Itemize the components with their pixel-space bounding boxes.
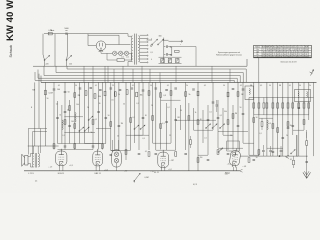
resistor R53 mid xyxy=(130,118,132,123)
label busrow 2 xyxy=(75,85,77,87)
wire right v down xyxy=(306,130,308,172)
wire table drop xyxy=(258,58,260,83)
capacitor C50 osc xyxy=(64,111,67,112)
resistor R51 osc xyxy=(64,120,66,125)
wire vertical v37 xyxy=(202,110,204,143)
capacitor C13 xyxy=(119,89,122,90)
resistor R21 right row xyxy=(258,98,260,115)
capacitor C69 low xyxy=(272,151,275,152)
wire link h22 xyxy=(218,131,248,133)
resistor R40 right xyxy=(306,132,308,157)
label smudge 6 xyxy=(111,100,113,102)
resistor R33 mid xyxy=(152,116,154,121)
wire otr v xyxy=(33,146,35,154)
switch S5 band c xyxy=(140,125,145,130)
label bottom 2 xyxy=(193,184,198,186)
wire link h3 xyxy=(58,143,102,145)
bus bottom main xyxy=(24,169,243,172)
wire heater winding xyxy=(131,51,133,53)
resistor R11 xyxy=(148,91,150,96)
label value 11 xyxy=(200,119,202,121)
tube V5 EM11 xyxy=(229,148,241,168)
wire vertical v49 xyxy=(266,82,268,156)
label pin 2 xyxy=(69,165,73,167)
wire vertical v29 xyxy=(166,103,168,150)
resistor R62 low xyxy=(101,144,103,149)
resistor R32 mid xyxy=(92,120,94,125)
label smudge 3 xyxy=(76,104,79,106)
label busrow 10 xyxy=(223,85,225,87)
wire switch to rail a xyxy=(44,60,46,66)
capacitor C55 mid xyxy=(174,119,177,120)
wire vertical v42 xyxy=(227,82,229,150)
title maker Schaub xyxy=(9,45,13,57)
capacitor C6 electrolytic xyxy=(176,58,179,62)
wire vertical v46 xyxy=(248,98,250,156)
wire mains drop left xyxy=(42,34,44,55)
bus main top xyxy=(41,81,317,83)
label busrow 14 xyxy=(269,85,271,87)
transformer Tr1 core xyxy=(135,34,137,65)
label bottom 4 xyxy=(290,159,292,161)
capacitor C75 det row xyxy=(280,146,283,156)
wire bus corner xyxy=(40,76,42,83)
wire tube V2 leads xyxy=(96,167,99,171)
label smudge 19 xyxy=(142,138,144,140)
label pin 6 xyxy=(243,166,247,168)
arrow B+ b xyxy=(157,39,163,45)
resistor R54 mid xyxy=(110,122,112,127)
capacitor C4 electrolytic xyxy=(161,58,164,62)
resistor R39 af xyxy=(190,136,192,148)
wire link h1 xyxy=(64,116,83,118)
tube V2 EBF11 xyxy=(93,149,103,168)
switch S1 mains xyxy=(43,55,50,61)
wire link h16 xyxy=(85,143,106,145)
wire vertical v30 xyxy=(170,82,172,143)
wire vertical v16 xyxy=(105,82,107,143)
label wavelength xyxy=(31,107,33,109)
label misc 4 xyxy=(159,36,162,38)
capacitor C63 low xyxy=(138,153,141,154)
label smudge 4 xyxy=(87,107,89,109)
wire link h12 xyxy=(198,154,208,156)
label smudge 16 xyxy=(62,135,64,137)
capacitor C64 low xyxy=(155,153,158,154)
title model KW 40 W xyxy=(5,0,16,41)
tube V3 EF11 diodes xyxy=(112,140,122,171)
wire vertical v22 xyxy=(133,82,135,143)
resistor R38 low xyxy=(303,120,305,125)
label smudge 20 xyxy=(169,135,171,137)
wire secondary taps xyxy=(140,35,148,63)
capacitor C61 low xyxy=(92,146,95,147)
capacitor C58 mid xyxy=(287,127,290,128)
wire tube V5 leads xyxy=(233,167,236,171)
capacitor C66 low xyxy=(207,159,210,160)
label value 19 xyxy=(220,149,222,151)
resistor R50 osc xyxy=(69,106,71,111)
resistor R71 right2 xyxy=(287,122,289,127)
tube V1 ECH11 xyxy=(56,149,67,167)
wire link h2 xyxy=(64,131,95,133)
capacitor C16 xyxy=(155,88,158,89)
wire vertical v1 xyxy=(34,82,36,146)
resistor R58 mid xyxy=(272,124,274,129)
label tube V1 xyxy=(58,173,64,175)
wire vertical v27 xyxy=(155,82,157,150)
potentiometer P1 xyxy=(134,173,141,182)
lamp La2 xyxy=(118,51,122,55)
resistor R4 xyxy=(74,93,81,98)
label busrow 1 xyxy=(58,85,60,87)
label smudge 15 xyxy=(240,107,242,109)
wire vertical v39 xyxy=(212,82,214,130)
wire tube V1 leads xyxy=(60,167,63,171)
capacitor C18 xyxy=(174,88,177,89)
label tap volts xyxy=(150,38,152,60)
speaker LS xyxy=(22,154,28,166)
wire vertical v33 xyxy=(185,82,187,150)
label volume xyxy=(145,177,149,179)
wire rail stub s9 xyxy=(211,66,213,82)
capacitor C31 low xyxy=(298,107,301,108)
label pin 1 xyxy=(49,167,53,169)
wire link h20 xyxy=(293,129,304,131)
capacitor C51 osc xyxy=(68,125,71,126)
label smudge 5 xyxy=(99,103,101,105)
wire otr top xyxy=(28,146,59,154)
wire heater loop xyxy=(107,53,132,60)
label speaker xyxy=(28,173,34,175)
wire vertical v8 xyxy=(69,100,71,144)
resistor R37 low xyxy=(253,118,255,123)
wire vertical v19 xyxy=(118,82,120,150)
resistor R34 mid xyxy=(188,116,190,121)
wire link h9 xyxy=(156,149,176,151)
label value 8 xyxy=(145,115,147,117)
output transformer Tr2 core xyxy=(35,153,36,168)
wire vertical v48 xyxy=(258,82,260,156)
capacitor C12 xyxy=(110,88,113,89)
capacitor C32 low xyxy=(305,161,308,162)
capacitor C65 low xyxy=(184,153,187,154)
label busrow 17 xyxy=(299,85,301,87)
lamp La3 xyxy=(124,51,128,55)
wire vertical v2 xyxy=(38,74,40,129)
label rectifier xyxy=(99,50,104,53)
capacitor C68 low xyxy=(253,159,256,160)
label smudge 23 xyxy=(259,133,261,135)
IF transformer box T1 xyxy=(295,90,311,102)
capacitor C70 right2 xyxy=(292,125,295,126)
resistor R70 right2 xyxy=(261,118,263,130)
label terminal TA xyxy=(32,89,35,92)
wire speaker bottom xyxy=(28,164,34,168)
wire electrolytic bus xyxy=(159,57,182,63)
wire rail stub s7 xyxy=(159,73,161,83)
wire vertical v38 xyxy=(207,105,209,155)
capacitor C9 xyxy=(79,88,82,89)
resistor R67 low xyxy=(217,150,219,155)
transformer Tr1 primary xyxy=(131,36,132,62)
resistor R36 low xyxy=(277,128,279,133)
capacitor C67 low xyxy=(227,153,230,154)
wire link h18 xyxy=(223,134,233,136)
resistor R18 xyxy=(227,92,229,97)
label value 5 xyxy=(108,115,110,117)
output transformer Tr2 primary xyxy=(32,154,33,168)
capacitor C60 low xyxy=(64,146,67,147)
label value 6 xyxy=(121,123,124,125)
label busrow 9 xyxy=(204,85,206,87)
label smudge 14 xyxy=(224,111,227,113)
resistor R23 right row xyxy=(266,98,268,115)
wire vertical v11 xyxy=(84,82,86,143)
label value 3 xyxy=(59,115,61,117)
resistor R25 right row xyxy=(277,98,279,115)
label smudge 1 xyxy=(47,98,49,100)
switch S2 mains xyxy=(66,55,72,61)
wire drop c xyxy=(54,55,56,67)
label pin 3 xyxy=(104,170,108,172)
wire rail stub s4 xyxy=(122,66,124,82)
wire det out xyxy=(240,155,308,156)
label busrow 12 xyxy=(250,85,253,87)
label value 9 xyxy=(162,123,164,125)
label pin 5 xyxy=(168,169,172,171)
resistor R42 ballast xyxy=(117,59,124,62)
rectifier tube AZ11 xyxy=(96,41,106,51)
arrow det out xyxy=(286,155,289,158)
wire vertical v54 xyxy=(292,82,294,135)
wire vertical v43 xyxy=(232,105,234,150)
wire vertical v45 xyxy=(242,82,244,143)
wire link h5 xyxy=(111,150,131,152)
label pin 4 xyxy=(151,171,155,173)
capacitor C10 xyxy=(90,87,93,88)
label smudge 21 xyxy=(204,138,206,140)
resistor R66 low xyxy=(197,158,199,163)
wire vertical v9 xyxy=(74,82,76,149)
resistor R12 xyxy=(160,93,166,98)
resistor R64 low xyxy=(148,152,150,157)
resistor R26 right row xyxy=(282,98,284,115)
label value 18 xyxy=(200,157,203,159)
wire vertical v26 xyxy=(152,82,154,143)
label busrow 4 xyxy=(112,85,114,87)
switch S4 band b xyxy=(134,125,139,130)
label misc 6 xyxy=(180,44,181,46)
coil L2 xyxy=(62,120,63,130)
label smudge 24 xyxy=(286,135,288,137)
resistor R43 det xyxy=(293,156,295,168)
wire vertical v15 xyxy=(101,82,103,149)
resistor R1 filter xyxy=(172,47,179,56)
resistor R65 low xyxy=(175,152,177,157)
coil L3 xyxy=(267,120,268,130)
wire lamps xyxy=(110,52,132,54)
label value 12 xyxy=(220,115,222,117)
arrow B+ out xyxy=(180,40,183,42)
label table caption xyxy=(280,61,297,64)
resistor R30 right row xyxy=(303,98,305,115)
wire rail drop a xyxy=(83,66,85,82)
wire vertical v5 xyxy=(57,101,59,144)
wire det drop xyxy=(296,135,298,156)
resistor R6 xyxy=(94,94,101,99)
wire rail stub s8 xyxy=(175,66,177,82)
switch S8 band e xyxy=(88,116,93,121)
label misc 8 xyxy=(126,57,129,59)
capacitor C73 det row xyxy=(262,145,265,156)
wire speaker feed v3 xyxy=(40,129,42,154)
capacitor C2 filter xyxy=(166,45,173,48)
wire vertical v4 xyxy=(53,82,55,149)
resistor R20 right row xyxy=(253,98,255,115)
wire rail drop c xyxy=(149,69,151,82)
wire filter node xyxy=(163,38,169,63)
rail 1 xyxy=(33,59,247,66)
switch S12 det xyxy=(290,150,295,155)
label smudge 12 xyxy=(195,112,197,114)
wire rectifier heater xyxy=(101,49,110,53)
wire link h7 xyxy=(111,150,119,152)
wire rectifier anode xyxy=(106,44,131,46)
resistor R27 right row xyxy=(287,98,289,115)
label smudge 7 xyxy=(123,104,125,106)
capacitor C30 low xyxy=(282,137,285,138)
resistor R69 low xyxy=(258,150,260,155)
wire speaker feed h xyxy=(33,131,47,133)
label caption two lines xyxy=(216,51,242,56)
resistor R22 right row xyxy=(263,98,265,115)
resistor R55 mid xyxy=(160,124,162,129)
wire right ground drop xyxy=(306,82,308,172)
rail 5 xyxy=(38,70,237,83)
label value 7 xyxy=(132,117,134,119)
tube V4 ECL11 xyxy=(158,150,169,169)
wire vertical v47 xyxy=(253,82,255,155)
wire vertical v7 xyxy=(64,82,66,149)
resistor R61 low xyxy=(74,144,76,149)
rail 4 xyxy=(44,66,240,82)
label smudge 11 xyxy=(180,110,182,112)
wire vertical v13 xyxy=(92,82,94,149)
capacitor C15 xyxy=(142,90,145,91)
switch S7 right xyxy=(218,148,223,153)
wire B+ arrow line xyxy=(169,40,180,42)
wire vertical v36 xyxy=(197,82,199,170)
output transformer Tr2 secondary xyxy=(38,154,39,168)
resistor R68 low xyxy=(248,158,250,163)
resistor R14 xyxy=(185,92,191,97)
switch S6 band d xyxy=(84,127,89,132)
resistor R52 osc xyxy=(74,124,76,129)
label tube V5 xyxy=(225,173,230,175)
rail 6 xyxy=(35,72,234,82)
wire link h17 xyxy=(134,134,143,136)
resistor R63 low xyxy=(125,150,127,155)
capacitor C3 filter xyxy=(166,53,173,56)
wire link h8 xyxy=(126,134,149,136)
wire vertical v28 xyxy=(160,82,162,149)
wire rectifier top xyxy=(88,34,119,46)
label busrow 5 xyxy=(132,85,134,87)
label smudge 9 xyxy=(151,105,153,107)
capacitor C25 mid xyxy=(105,117,108,118)
wire switch to rail b xyxy=(66,60,68,66)
label value 13 xyxy=(235,113,238,115)
wire link h21 xyxy=(176,119,216,121)
shield box EM11 xyxy=(227,141,240,151)
label value 2 xyxy=(71,121,74,123)
capacitor C72 det xyxy=(216,100,219,112)
capacitor C24 xyxy=(242,89,245,90)
arrow B+ a xyxy=(151,39,157,45)
wire rail stub s5 xyxy=(132,69,134,82)
wire speaker top xyxy=(28,154,34,157)
wire vertical v57 xyxy=(308,82,310,120)
label tube V2 xyxy=(95,173,101,175)
label busrow 8 xyxy=(186,85,188,87)
wire vertical v23 xyxy=(138,82,140,150)
capacitor C23 xyxy=(232,88,235,89)
fuse Si xyxy=(48,29,53,35)
ground G1 bottom right xyxy=(303,171,311,178)
wire vertical v56 xyxy=(303,82,305,130)
wire rail stub s2 xyxy=(107,66,109,82)
resistor R60 low xyxy=(53,144,55,149)
resistor R10 xyxy=(136,92,143,97)
IF transformer box T2 xyxy=(245,86,254,100)
resistor R7 xyxy=(104,91,106,96)
wire vertical v41 xyxy=(222,108,224,135)
capacitor C1 mains xyxy=(64,28,68,35)
wire mains drop mid xyxy=(54,34,56,55)
label smudge 13 xyxy=(209,112,211,114)
wire right mid v xyxy=(296,135,298,157)
wire vertical v50 xyxy=(272,82,274,156)
label misc 5 xyxy=(150,46,152,48)
wire speaker feed v2 xyxy=(32,132,34,154)
wire link h25 xyxy=(96,128,111,130)
wire vertical v31 xyxy=(175,108,177,150)
label busrow 13 xyxy=(260,85,262,87)
wire link h14 xyxy=(249,154,259,156)
wire vertical v24 xyxy=(142,82,144,135)
wire vertical v58 xyxy=(313,82,315,156)
resistor R24 right row xyxy=(272,98,274,115)
capacitor C27 mid xyxy=(165,121,168,122)
wire drop d xyxy=(67,34,69,55)
wire rail stub s3 xyxy=(113,69,115,82)
resistor R31 right row xyxy=(308,98,310,115)
label busrow 7 xyxy=(167,85,169,87)
label value 14 xyxy=(256,117,258,119)
label smudge 10 xyxy=(167,107,169,109)
wire vertical v35 xyxy=(193,108,195,130)
resistor R57 mid xyxy=(232,114,234,119)
capacitor C62 low xyxy=(110,154,113,155)
switch S11 det xyxy=(219,124,224,129)
wire vertical v6 xyxy=(61,105,63,144)
wire rail drop b xyxy=(104,66,106,82)
coil L1 xyxy=(75,113,76,123)
wire rail stub s10 xyxy=(229,69,231,82)
wire vertical v55 xyxy=(298,82,300,156)
wire primary taps xyxy=(95,34,131,66)
